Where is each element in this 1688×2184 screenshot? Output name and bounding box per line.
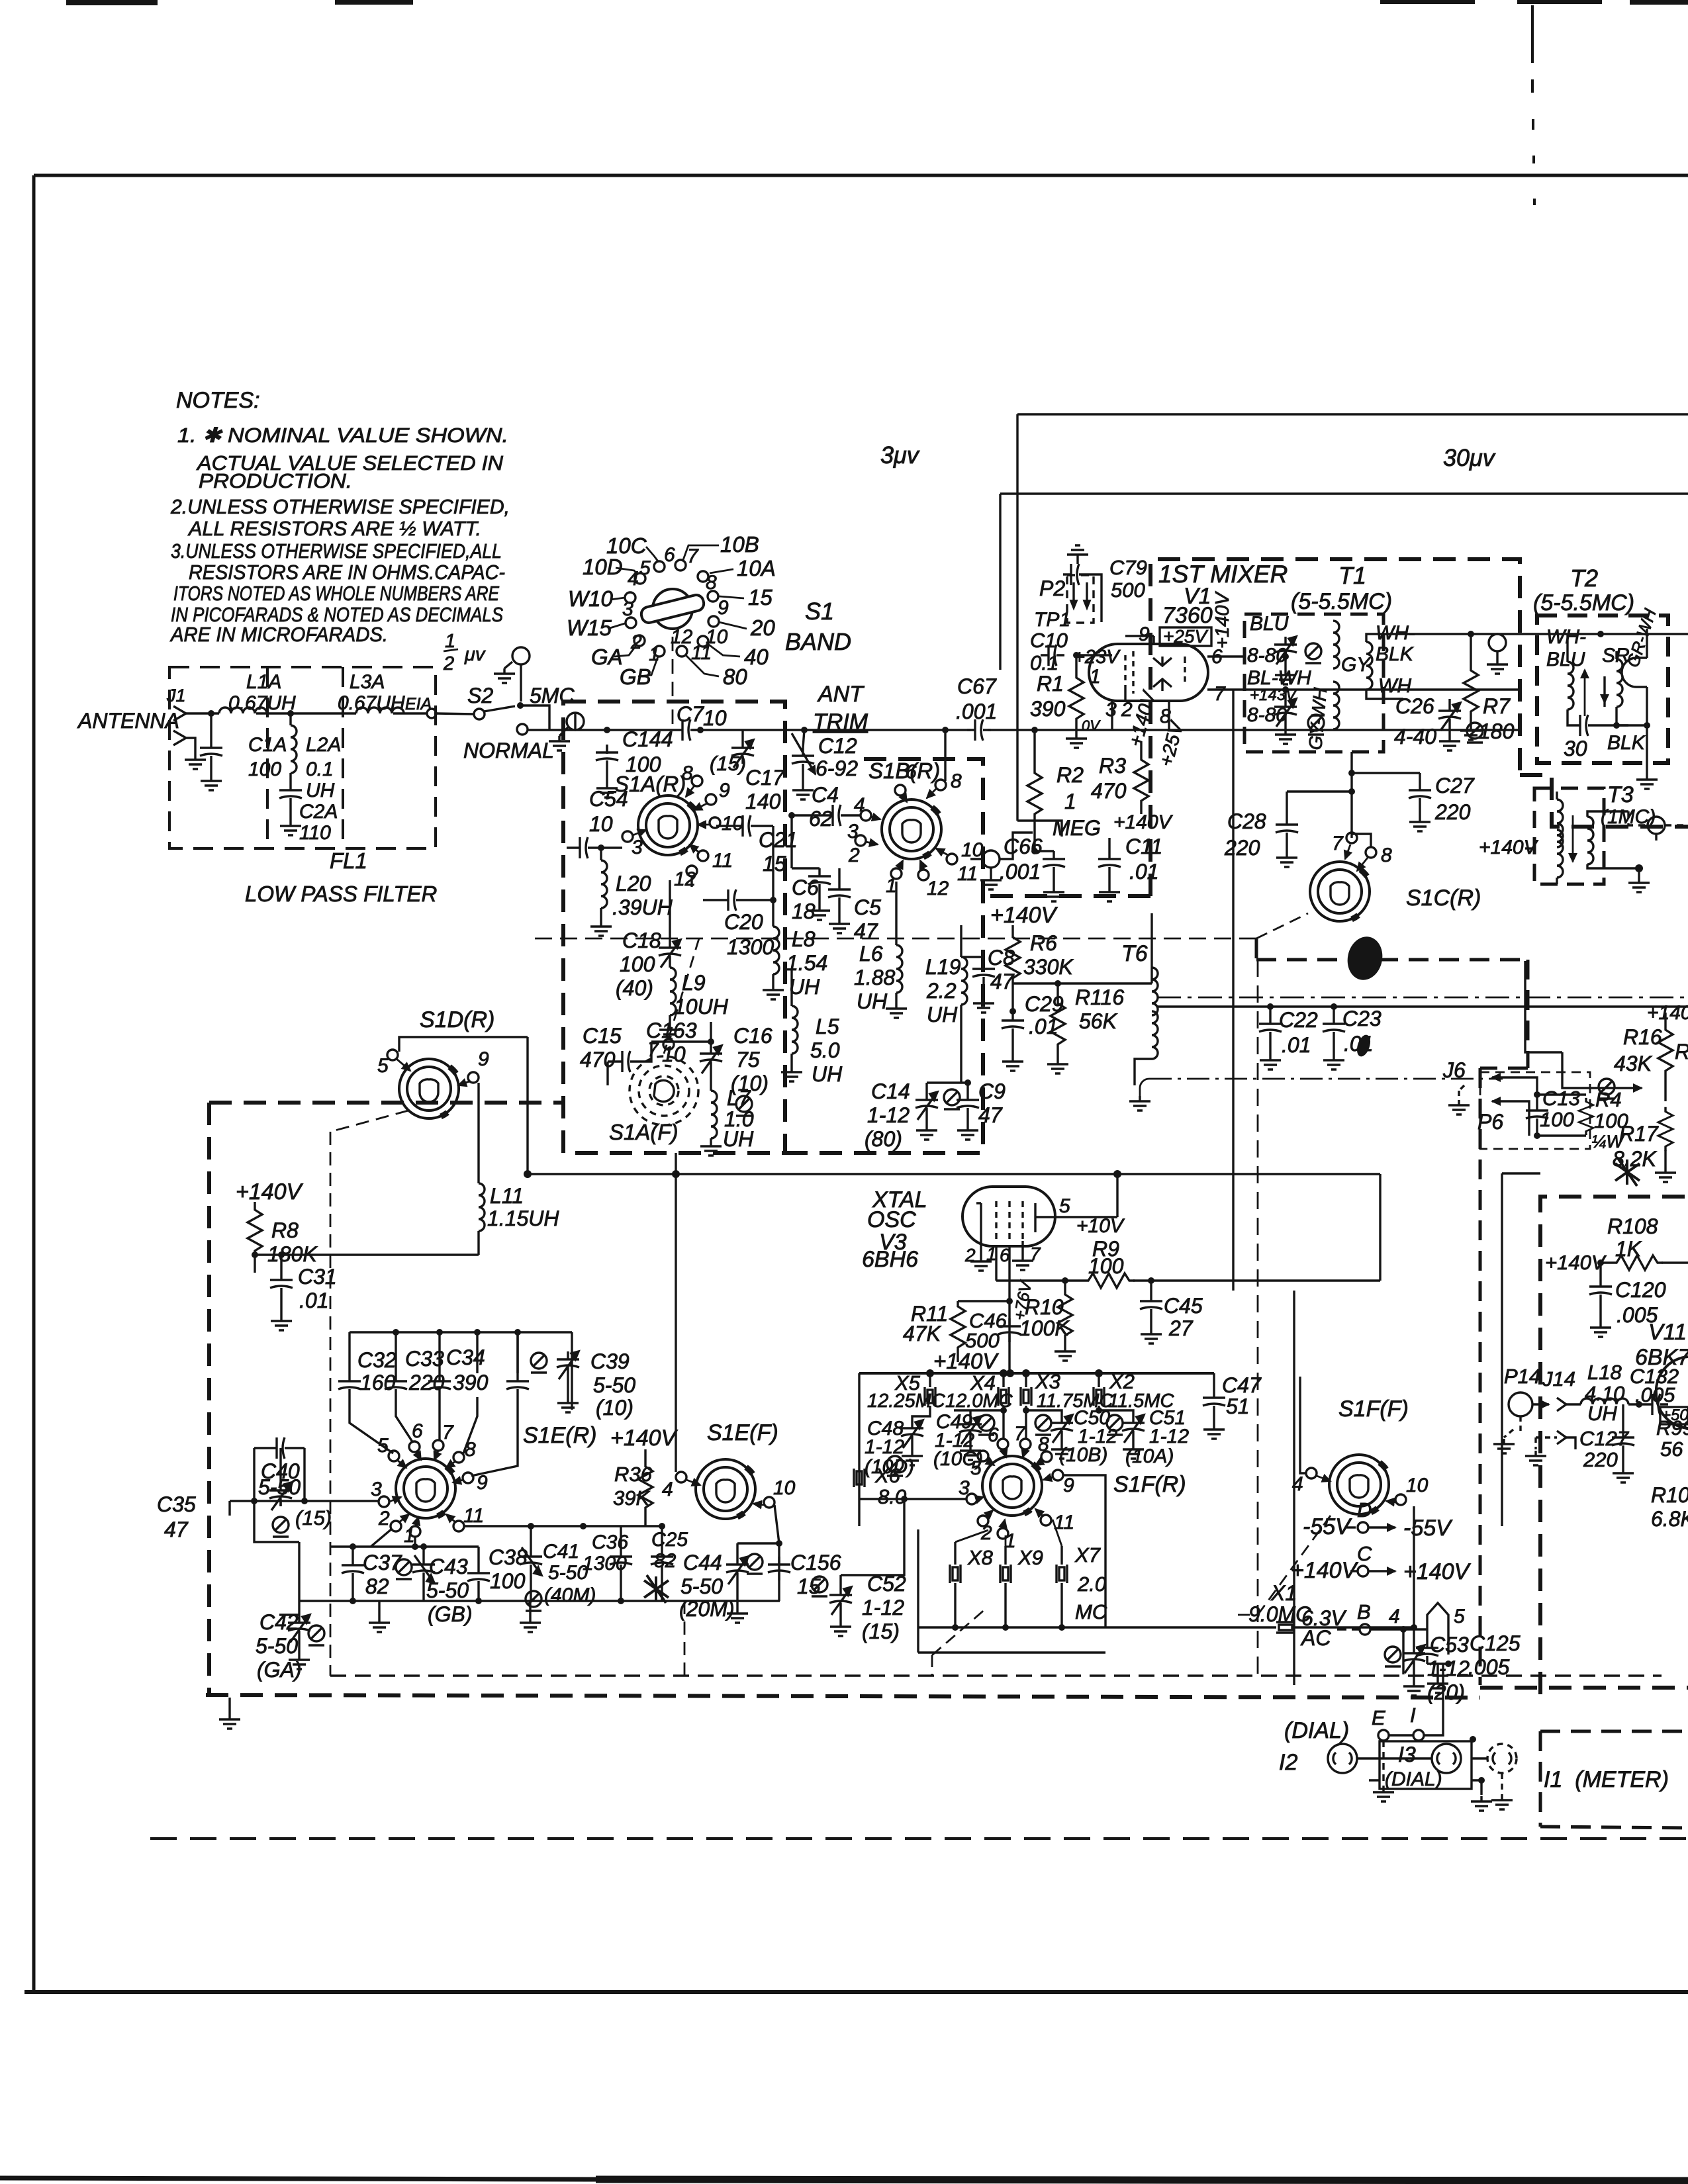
- shield box V11: [1540, 1197, 1688, 1694]
- ground at box B bottom: [228, 1698, 230, 1714]
- svg-text:9: 9: [719, 780, 730, 801]
- svg-text:2: 2: [1121, 699, 1133, 721]
- svg-text:L2A: L2A: [306, 734, 341, 756]
- svg-text:MEG: MEG: [1053, 816, 1101, 840]
- svg-text:.005: .005: [1468, 1655, 1509, 1679]
- svg-text:5: 5: [377, 1055, 389, 1077]
- svg-text:82: 82: [365, 1574, 389, 1598]
- svg-text:C20: C20: [724, 910, 763, 934]
- wire osc output row: [996, 1174, 1380, 1281]
- switch wafer S1B(R): [882, 799, 941, 859]
- svg-text:R116: R116: [1075, 985, 1124, 1009]
- second connector pin: [1557, 1431, 1566, 1444]
- svg-text:3: 3: [959, 1477, 970, 1499]
- gang line horizontal: [535, 938, 1256, 940]
- svg-text:LOW PASS FILTER: LOW PASS FILTER: [245, 882, 437, 906]
- vacuum tube V1 7360: [1089, 644, 1208, 701]
- ground (J1): [185, 754, 206, 769]
- svg-text:T6: T6: [1121, 941, 1148, 966]
- svg-text:X8: X8: [967, 1546, 994, 1569]
- svg-text:8: 8: [1038, 1433, 1049, 1455]
- svg-text:S1F(F): S1F(F): [1338, 1396, 1409, 1422]
- shield box B outline: [206, 1103, 1688, 1698]
- svg-text:X3: X3: [1035, 1370, 1060, 1393]
- svg-text:470: 470: [580, 1048, 616, 1071]
- svg-text:C: C: [1357, 1542, 1372, 1565]
- ink blob artifact: [1344, 933, 1387, 983]
- wire pin4 riser S1F(F): [1300, 1377, 1306, 1473]
- svg-text:+25V: +25V: [1163, 626, 1208, 647]
- V3 pin 5: [1035, 1174, 1117, 1217]
- svg-text:C156: C156: [790, 1551, 841, 1574]
- switch S1 rotor: [640, 589, 706, 629]
- switch wafer S1C(R): [1310, 862, 1370, 921]
- svg-text:X9: X9: [1017, 1546, 1043, 1569]
- svg-text:9: 9: [1063, 1475, 1074, 1496]
- gang diagonal to S1A(F): [664, 938, 699, 1054]
- svg-text:C79: C79: [1109, 556, 1147, 579]
- svg-text:(15): (15): [710, 752, 746, 775]
- shield feedthrough at 1/2uv: [512, 647, 530, 664]
- svg-text:2: 2: [964, 1245, 976, 1265]
- svg-text:220: 220: [1224, 836, 1260, 860]
- svg-text:R100: R100: [1651, 1483, 1688, 1507]
- switch wafer S1D(R): [399, 1059, 459, 1118]
- inductor L1A: [219, 707, 267, 713]
- svg-text:1-12: 1-12: [862, 1596, 904, 1619]
- svg-text:0.1: 0.1: [306, 758, 334, 780]
- svg-text:S1C(R): S1C(R): [1406, 886, 1481, 911]
- wire +140V bus: [859, 1372, 1214, 1375]
- svg-text:6: 6: [412, 1420, 423, 1442]
- svg-text:UH: UH: [723, 1127, 754, 1151]
- feedthrough T3: [1648, 817, 1665, 834]
- capacitor C44 trimmer: [737, 1542, 779, 1544]
- inductor L9: [669, 964, 671, 968]
- svg-text:62: 62: [809, 807, 833, 831]
- svg-text:(15): (15): [862, 1619, 900, 1643]
- svg-text:+10V: +10V: [1076, 1215, 1125, 1237]
- test point P2 dashed box: [1067, 575, 1094, 623]
- svg-text:MC: MC: [1075, 1600, 1107, 1623]
- svg-text:+23V: +23V: [1074, 647, 1121, 668]
- svg-text:5-50: 5-50: [680, 1574, 723, 1598]
- svg-text:5: 5: [970, 1457, 982, 1479]
- svg-text:6: 6: [906, 761, 917, 783]
- wire antenna line: [186, 712, 427, 714]
- svg-text:R16: R16: [1623, 1025, 1662, 1049]
- svg-text:+140V: +140V: [1212, 591, 1233, 649]
- svg-text:L19: L19: [925, 955, 961, 979]
- wire bottom bus X1 line: [918, 1506, 1414, 1645]
- wire vertical x=1955: [1293, 1291, 1295, 1685]
- svg-text:0.67UH: 0.67UH: [228, 692, 296, 714]
- svg-text:2: 2: [378, 1508, 390, 1529]
- svg-text:(20M): (20M): [679, 1597, 735, 1621]
- svg-text:.01: .01: [299, 1289, 328, 1312]
- svg-text:56K: 56K: [1079, 1009, 1118, 1033]
- wire bottom bus: [299, 1600, 780, 1602]
- svg-text:I2: I2: [1279, 1750, 1297, 1775]
- svg-text:390: 390: [1030, 697, 1066, 721]
- svg-text:C15: C15: [583, 1024, 622, 1048]
- svg-text:C26: C26: [1395, 694, 1434, 718]
- svg-text:S1E(R): S1E(R): [523, 1423, 596, 1448]
- svg-text:WH-: WH-: [1546, 626, 1586, 648]
- transformer T3 box: [1534, 788, 1604, 884]
- svg-text:S1A(F): S1A(F): [609, 1120, 679, 1144]
- svg-text:NOTES:: NOTES:: [176, 388, 260, 413]
- svg-text:R6: R6: [1030, 931, 1057, 955]
- wire top bus: [350, 1332, 572, 1410]
- svg-text:C43: C43: [429, 1555, 468, 1578]
- svg-text:56: 56: [1660, 1437, 1683, 1461]
- svg-text:C18: C18: [622, 929, 661, 952]
- svg-text:(40M): (40M): [544, 1584, 596, 1606]
- svg-text:330K: 330K: [1023, 955, 1074, 979]
- shield box S1B: [785, 759, 983, 1153]
- capacitor C144: [604, 727, 610, 733]
- ground: [549, 736, 570, 751]
- S1 position numbers: [622, 544, 729, 665]
- wire contact2/1 net: [330, 1529, 479, 1565]
- svg-text:NORMAL: NORMAL: [463, 739, 554, 762]
- T2 primary coil: [1568, 662, 1573, 709]
- svg-text:+140V: +140V: [1403, 1559, 1472, 1584]
- svg-text:C66: C66: [1004, 835, 1043, 858]
- svg-text:1. ✱ NOMINAL VALUE SHOWN.: 1. ✱ NOMINAL VALUE SHOWN.: [177, 424, 508, 447]
- svg-text:S1: S1: [805, 598, 834, 625]
- wire S1D pin9 to L11: [477, 1083, 479, 1183]
- svg-text:UH: UH: [306, 780, 335, 801]
- svg-text:C12: C12: [818, 734, 857, 758]
- svg-text:160: 160: [360, 1371, 396, 1394]
- svg-text:-55V: -55V: [1303, 1514, 1352, 1539]
- svg-text:2.2: 2.2: [926, 979, 957, 1003]
- svg-text:5-50: 5-50: [593, 1373, 635, 1397]
- svg-text:1-12: 1-12: [1149, 1426, 1189, 1447]
- svg-text:30: 30: [1564, 737, 1587, 760]
- svg-text:.01: .01: [1129, 860, 1158, 884]
- capacitor C2A: [279, 782, 302, 806]
- svg-text:3: 3: [1105, 699, 1117, 721]
- svg-text:ITORS NOTED AS WHOLE NUMBERS A: ITORS NOTED AS WHOLE NUMBERS ARE: [173, 582, 499, 605]
- wire long row at 1774: [528, 1173, 1380, 1175]
- svg-text:75: 75: [736, 1048, 760, 1071]
- svg-text:C4: C4: [812, 783, 839, 807]
- svg-text:100: 100: [248, 758, 281, 780]
- wire 30uv reference: [1000, 494, 1688, 670]
- svg-text:4: 4: [854, 794, 865, 816]
- svg-text:UH: UH: [857, 989, 888, 1013]
- S1 contact ring: [625, 560, 719, 657]
- wire 4th drop: [463, 1397, 477, 1453]
- svg-text:80: 80: [723, 664, 747, 689]
- inductor L7: [710, 1069, 712, 1091]
- S1A(R) contacts: [622, 776, 720, 876]
- transformer T1 box: [1244, 614, 1383, 752]
- wire pin12 drop: [670, 876, 692, 940]
- T2 secondary coil: [1617, 659, 1622, 707]
- svg-text:100: 100: [490, 1569, 526, 1593]
- svg-text:+140V: +140V: [933, 1349, 999, 1373]
- svg-text:3.UNLESS OTHERWISE SPECIFIED,A: 3.UNLESS OTHERWISE SPECIFIED,ALL: [171, 539, 502, 563]
- svg-text:5-50: 5-50: [256, 1634, 298, 1658]
- coil to GR-WH wire: [1617, 629, 1647, 774]
- svg-text:11: 11: [463, 1505, 484, 1527]
- svg-text:L3A: L3A: [350, 671, 385, 693]
- svg-text:L20: L20: [616, 872, 651, 895]
- svg-text:AC: AC: [1300, 1626, 1331, 1650]
- svg-text:2.0: 2.0: [1077, 1572, 1106, 1596]
- svg-text:+140: +140: [1647, 1002, 1688, 1024]
- svg-text:(15): (15): [295, 1506, 332, 1529]
- svg-text:5: 5: [639, 557, 651, 579]
- svg-text:S1E(F): S1E(F): [707, 1420, 778, 1445]
- svg-text:OSC: OSC: [867, 1207, 916, 1232]
- svg-text:110: 110: [299, 822, 331, 844]
- svg-text:+140V: +140V: [610, 1426, 679, 1451]
- svg-text:(10): (10): [596, 1396, 633, 1420]
- gang diagonal to S1F(F): [1258, 1516, 1331, 1615]
- svg-text:5: 5: [1454, 1606, 1465, 1627]
- inductor L3A: [356, 707, 404, 713]
- switch wafer S1F(R): [982, 1456, 1042, 1516]
- svg-text:8: 8: [1381, 844, 1392, 866]
- gang diagonal from S1D: [330, 1111, 408, 1676]
- svg-text:L5: L5: [816, 1015, 839, 1038]
- svg-text:180K: 180K: [267, 1242, 318, 1266]
- svg-text:12.25MC: 12.25MC: [867, 1390, 946, 1412]
- switch wafer S1E(R): [396, 1459, 455, 1518]
- svg-text:220: 220: [1583, 1448, 1618, 1471]
- svg-text:6BH6: 6BH6: [862, 1247, 918, 1272]
- meter dashed box bottom right: [1540, 1731, 1688, 1828]
- svg-text:C6: C6: [792, 876, 819, 899]
- svg-text:7: 7: [1030, 1244, 1041, 1264]
- wires C15/C163/C16 bus: [608, 1022, 711, 1085]
- box I3: [1380, 1741, 1472, 1789]
- svg-text:J1: J1: [166, 686, 186, 705]
- svg-text:(GB): (GB): [428, 1602, 473, 1626]
- svg-text:T1: T1: [1338, 562, 1366, 589]
- svg-text:6: 6: [664, 544, 675, 566]
- trimmer capacitor C39: [557, 1351, 579, 1375]
- svg-text:C11: C11: [1125, 835, 1162, 858]
- svg-text:ANTENNA: ANTENNA: [77, 709, 179, 733]
- svg-text:.39UH: .39UH: [612, 895, 673, 919]
- svg-text:6: 6: [988, 1424, 999, 1446]
- svg-text:-55V: -55V: [1403, 1516, 1453, 1541]
- lamp I3: [1432, 1744, 1461, 1773]
- svg-text:1: 1: [404, 1525, 415, 1547]
- svg-text:1.88: 1.88: [854, 966, 895, 989]
- asterisk C25: [644, 1575, 669, 1603]
- svg-text:1-12: 1-12: [867, 1103, 910, 1127]
- svg-text:C25: C25: [651, 1529, 688, 1551]
- svg-text:C67: C67: [957, 674, 997, 698]
- wire T2 top feed: [1566, 634, 1568, 653]
- svg-text:+140V: +140V: [236, 1179, 304, 1205]
- svg-text:UH: UH: [812, 1062, 843, 1086]
- gang diagonal into S1F(R): [932, 1608, 986, 1655]
- svg-text:6.8K: 6.8K: [1651, 1507, 1688, 1531]
- lamp I1 dashed: [1487, 1744, 1517, 1773]
- terminal EIA: [427, 709, 436, 718]
- svg-text:I1 (METER): I1 (METER): [1544, 1767, 1669, 1792]
- svg-text:9: 9: [477, 1472, 488, 1494]
- svg-text:FL1: FL1: [330, 848, 367, 873]
- svg-text:10: 10: [1406, 1475, 1429, 1496]
- svg-text:5: 5: [1059, 1195, 1070, 1217]
- svg-text:390: 390: [453, 1371, 489, 1394]
- svg-text:47: 47: [990, 970, 1015, 993]
- svg-text:12: 12: [927, 878, 949, 899]
- svg-text:P2: P2: [1039, 576, 1065, 600]
- T1 coil lower: [1333, 682, 1339, 729]
- svg-text:1.15UH: 1.15UH: [487, 1206, 559, 1230]
- svg-text:4: 4: [1389, 1606, 1400, 1627]
- inductor L20: [600, 848, 602, 860]
- switch wafer S1E(F): [696, 1459, 755, 1519]
- svg-text:+140V: +140V: [1113, 811, 1174, 833]
- svg-text:J14: J14: [1542, 1367, 1575, 1390]
- svg-text:3μv: 3μv: [880, 441, 920, 469]
- wire T6 secondary lines: [1157, 997, 1688, 999]
- svg-text:GB: GB: [620, 664, 651, 689]
- svg-text:C14: C14: [871, 1079, 910, 1103]
- svg-text:40: 40: [744, 645, 769, 669]
- svg-text:L1A: L1A: [246, 671, 281, 693]
- svg-text:11: 11: [712, 850, 733, 872]
- svg-text:C31: C31: [298, 1265, 337, 1289]
- svg-text:1: 1: [1064, 790, 1076, 813]
- ground (C1A): [201, 776, 222, 790]
- scan edge marks top: [66, 1, 1688, 3]
- wire T1 to C26/R7: [1403, 633, 1688, 635]
- svg-text:C44: C44: [683, 1551, 722, 1574]
- svg-text:R2: R2: [1056, 763, 1084, 787]
- svg-text:1: 1: [886, 875, 897, 897]
- svg-text:7: 7: [442, 1422, 454, 1443]
- svg-text:6: 6: [1000, 1245, 1010, 1265]
- wire R16 to pot: [1562, 1052, 1642, 1088]
- svg-text:10A: 10A: [737, 556, 776, 580]
- svg-text:R1: R1: [1037, 672, 1064, 696]
- svg-text:1: 1: [445, 631, 455, 652]
- svg-text:C13: C13: [1542, 1087, 1580, 1110]
- svg-text:ALL RESISTORS ARE ½ WATT.: ALL RESISTORS ARE ½ WATT.: [187, 517, 481, 540]
- svg-text:S1D(R): S1D(R): [420, 1007, 494, 1032]
- svg-text:BAND: BAND: [785, 628, 851, 655]
- svg-text:C23: C23: [1342, 1007, 1382, 1030]
- T1 secondary WH-BLK: [1366, 642, 1372, 690]
- svg-text:2: 2: [848, 844, 860, 866]
- mechanical gang line from S1 rotor: [672, 637, 674, 730]
- shield box 1st mixer: [983, 559, 1688, 896]
- svg-text:4-40: 4-40: [1394, 725, 1436, 749]
- svg-text:L18: L18: [1587, 1361, 1622, 1384]
- svg-text:C7: C7: [677, 702, 704, 726]
- svg-text:4: 4: [662, 1479, 673, 1500]
- svg-text:.001: .001: [956, 700, 997, 723]
- svg-text:C9: C9: [978, 1079, 1006, 1103]
- svg-text:10B: 10B: [720, 532, 759, 557]
- svg-text:C36: C36: [592, 1531, 628, 1553]
- svg-text:RESISTORS ARE IN OHMS.CAPAC-: RESISTORS ARE IN OHMS.CAPAC-: [189, 561, 505, 584]
- wire pin4 riser: [675, 1174, 677, 1472]
- svg-text:C39: C39: [590, 1349, 630, 1373]
- svg-text:8: 8: [682, 762, 693, 784]
- gang dash below: [684, 1601, 686, 1676]
- svg-text:1-12: 1-12: [1427, 1657, 1470, 1680]
- inductor L2A: [289, 713, 291, 725]
- svg-text:C45: C45: [1164, 1294, 1203, 1318]
- svg-text:C33: C33: [405, 1347, 444, 1371]
- scan edge line bottom: [0, 2178, 1688, 2180]
- svg-text:9: 9: [478, 1048, 489, 1070]
- svg-text:S2: S2: [467, 684, 493, 707]
- low-pass filter FL1 dashed box: [169, 667, 436, 848]
- svg-text:(5-5.5MC): (5-5.5MC): [1291, 589, 1392, 614]
- svg-text:R17: R17: [1619, 1122, 1659, 1146]
- wires I3 box: [1369, 1737, 1487, 1795]
- svg-text:7: 7: [1214, 683, 1226, 705]
- wire contact9 to right riser: [1063, 1475, 1105, 1627]
- svg-text:X7: X7: [1074, 1543, 1102, 1567]
- lower long dashed line: [150, 1837, 1688, 1840]
- V3 lower pins: [981, 1239, 1023, 1373]
- scan dashed vertical top right: [1532, 5, 1534, 205]
- wire 3uv reference: [1017, 414, 1688, 837]
- no-adjust: [396, 1559, 412, 1579]
- svg-text:100: 100: [620, 952, 655, 976]
- svg-text:C47: C47: [1222, 1373, 1262, 1397]
- svg-text:S1B(R): S1B(R): [868, 758, 940, 783]
- asterisk: [1615, 1158, 1640, 1186]
- svg-text:6-92: 6-92: [816, 756, 858, 780]
- svg-text:1: 1: [986, 1244, 997, 1264]
- svg-text:.005: .005: [1635, 1383, 1675, 1406]
- gang dashed vertical x=1900: [1257, 960, 1259, 1674]
- svg-text:8: 8: [706, 572, 717, 594]
- svg-text:L11: L11: [490, 1184, 524, 1208]
- svg-text:(DIAL): (DIAL): [1385, 1768, 1442, 1790]
- wire 5th drop: [471, 1332, 518, 1476]
- svg-text:R108: R108: [1607, 1214, 1658, 1238]
- switch wafer S1A(F) dashed: [630, 1056, 698, 1125]
- svg-text:C2A: C2A: [299, 801, 338, 823]
- svg-text:9: 9: [1139, 623, 1150, 645]
- svg-text:R7: R7: [1483, 694, 1511, 718]
- svg-text:7: 7: [1332, 833, 1344, 854]
- svg-text:47: 47: [854, 919, 878, 943]
- V1 pin wires: [1112, 636, 1520, 730]
- tube V11 partial: [1656, 1357, 1688, 1428]
- svg-text:μv: μv: [464, 644, 486, 665]
- wire main signal line: [528, 729, 1519, 731]
- svg-text:C8: C8: [988, 946, 1015, 970]
- feedthrough on plate line: [1489, 634, 1506, 651]
- T3 secondary: [1587, 817, 1593, 864]
- svg-text:BLK: BLK: [1376, 643, 1415, 665]
- svg-text:4: 4: [1292, 1473, 1303, 1495]
- svg-text:3: 3: [847, 821, 859, 842]
- svg-text:10: 10: [722, 813, 744, 835]
- svg-text:470: 470: [1091, 779, 1127, 803]
- svg-text:R3: R3: [1099, 754, 1126, 778]
- T3 primary: [1557, 799, 1563, 847]
